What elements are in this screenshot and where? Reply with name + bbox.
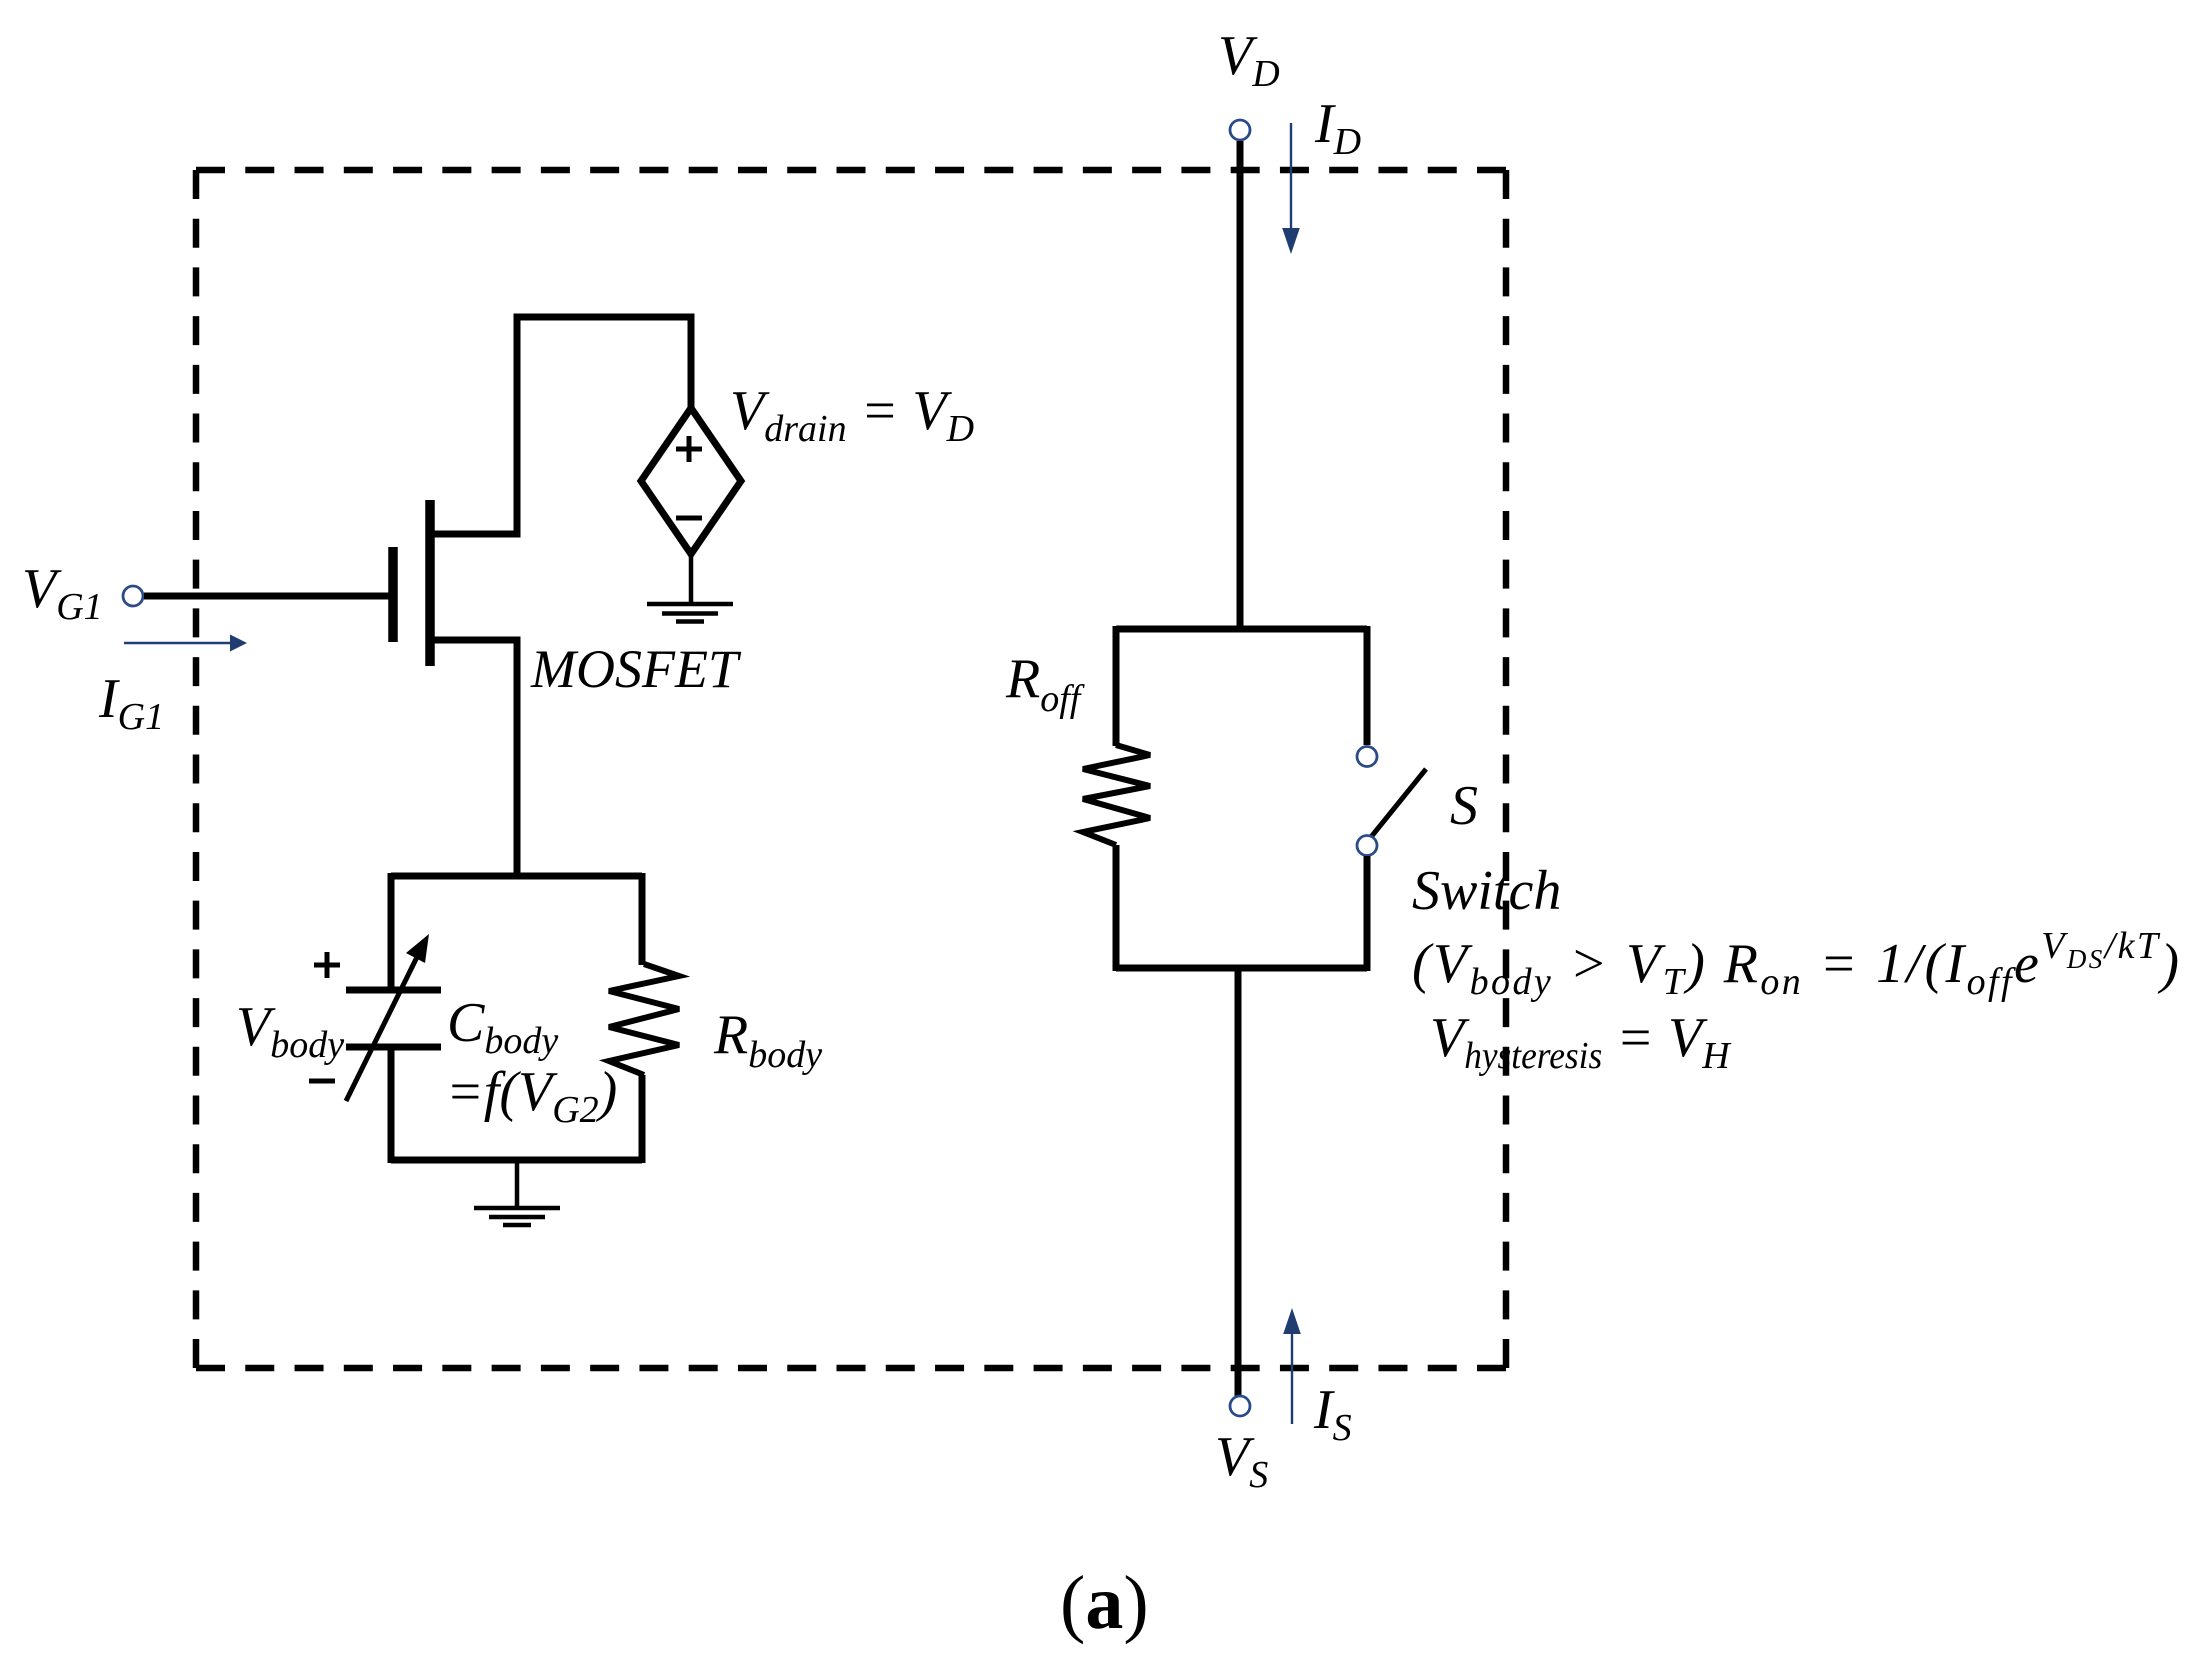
variable capacitor Cbody plates xyxy=(346,987,441,994)
minus sign inside source xyxy=(676,516,702,521)
resistor Roff xyxy=(1083,745,1150,845)
dashed boundary box (right edge) xyxy=(1503,170,1510,1368)
plus sign inside source xyxy=(676,436,702,462)
wire right branch lower xyxy=(1364,856,1371,971)
wire from box bottom to VS xyxy=(1235,968,1242,1396)
current arrow ID xyxy=(1290,123,1292,231)
switch S blade xyxy=(1371,769,1426,837)
dashed boundary box (left edge) xyxy=(193,170,200,1368)
svg-text:ID: ID xyxy=(1314,93,1361,163)
current arrow IS xyxy=(1291,1332,1293,1424)
MOSFET Q1 channel bar xyxy=(425,500,435,666)
svg-text:VG1: VG1 xyxy=(22,558,103,628)
MOSFET Q1 source lead down to body network xyxy=(430,640,517,876)
Roff / switch parallel box bottom edge xyxy=(1116,965,1367,972)
wire VD down to Roff/switch box xyxy=(1237,141,1244,629)
gate wire xyxy=(144,593,391,600)
body network box top edge xyxy=(391,873,642,880)
ground under dependent source xyxy=(647,604,733,622)
Roff / switch parallel box top edge xyxy=(1116,626,1367,633)
svg-text:VS: VS xyxy=(1215,1426,1268,1496)
resistor Rbody xyxy=(609,964,679,1075)
svg-text:Cbody: Cbody xyxy=(447,992,558,1062)
svg-text:IS: IS xyxy=(1313,1379,1352,1449)
svg-text:(a): (a) xyxy=(1060,1561,1149,1645)
svg-text:Rbody: Rbody xyxy=(713,1004,822,1076)
dependent voltage source E1 diamond xyxy=(641,408,741,554)
ground under body network xyxy=(474,1208,560,1225)
node VG1 terminal circle xyxy=(123,586,143,606)
minus sign Vbody xyxy=(309,1079,335,1084)
svg-text:=f(VG2): =f(VG2) xyxy=(446,1061,617,1131)
svg-text:IG1: IG1 xyxy=(98,668,164,738)
svg-text:VD: VD xyxy=(1218,25,1280,95)
svg-text:MOSFET: MOSFET xyxy=(530,639,742,699)
node VS terminal circle xyxy=(1230,1396,1250,1416)
right branch wire upper xyxy=(639,873,646,965)
dashed boundary box (top edge) xyxy=(196,167,1506,174)
plus sign Vbody xyxy=(314,952,340,978)
switch S lower contact circle xyxy=(1357,836,1377,856)
left branch wire upper xyxy=(388,873,395,990)
MOSFET Q1 gate bar xyxy=(388,547,398,642)
wire left branch upper xyxy=(1113,626,1120,746)
node VD terminal circle xyxy=(1230,120,1250,140)
right branch wire lower xyxy=(639,1075,646,1163)
wire box bottom to ground xyxy=(515,1160,520,1208)
svg-text:Vdrain = VD: Vdrain = VD xyxy=(730,380,974,450)
body network box bottom edge xyxy=(391,1157,642,1164)
variable capacitor arrow xyxy=(346,953,419,1101)
svg-text:Vbody: Vbody xyxy=(236,996,344,1066)
wire right branch upper xyxy=(1364,626,1371,745)
svg-text:Roff: Roff xyxy=(1005,648,1085,720)
svg-text:(Vbody > VT) Ron = 1/(IoffeVDS: (Vbody > VT) Ron = 1/(IoffeVDS/kT) xyxy=(1412,925,2181,1003)
svg-text:S: S xyxy=(1450,775,1478,837)
dashed boundary box (bottom edge) xyxy=(196,1365,1506,1372)
left branch wire lower xyxy=(388,1047,395,1163)
wire source to ground xyxy=(689,554,694,604)
wire left branch lower xyxy=(1113,845,1120,971)
svg-text:Switch: Switch xyxy=(1412,860,1561,922)
MOSFET Q1 drain lead up and over to dependent source xyxy=(430,317,691,534)
switch S upper contact circle xyxy=(1357,747,1377,767)
svg-text:Vhysteresis = VH: Vhysteresis = VH xyxy=(1430,1007,1732,1077)
current arrow IG1 xyxy=(124,642,230,644)
